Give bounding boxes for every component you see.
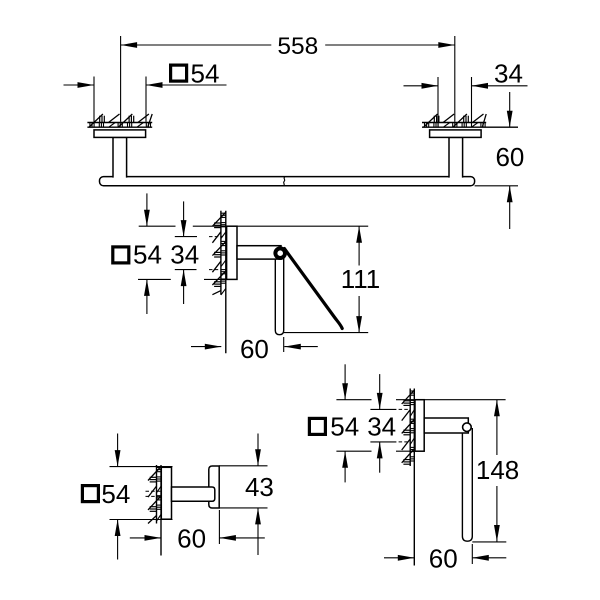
svg-text:54: 54 xyxy=(133,239,162,269)
svg-text:60: 60 xyxy=(429,543,458,573)
svg-text:60: 60 xyxy=(495,142,524,172)
svg-text:111: 111 xyxy=(341,264,381,294)
svg-text:54: 54 xyxy=(101,479,130,509)
svg-text:60: 60 xyxy=(177,523,206,553)
svg-text:43: 43 xyxy=(245,472,274,502)
svg-text:54: 54 xyxy=(330,412,359,442)
svg-text:558: 558 xyxy=(277,33,318,60)
svg-text:148: 148 xyxy=(476,455,519,485)
svg-text:34: 34 xyxy=(494,59,523,89)
svg-text:54: 54 xyxy=(191,59,220,89)
svg-text:60: 60 xyxy=(240,334,269,364)
svg-text:34: 34 xyxy=(170,239,199,269)
svg-text:34: 34 xyxy=(367,412,396,442)
